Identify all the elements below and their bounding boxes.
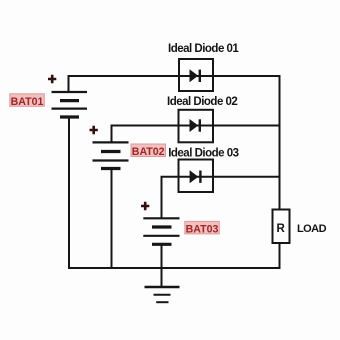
- wire ground stem: [161, 268, 163, 287]
- wire load bottom to bus: [279, 242, 281, 269]
- label BAT03: [185, 221, 220, 235]
- ideal diode U1 box: [179, 59, 213, 91]
- wire diode3 output to rail: [213, 176, 281, 178]
- wire bottom bus: [69, 267, 281, 269]
- wire diode1 output to right rail: [212, 75, 281, 77]
- battery BAT01: [52, 92, 88, 117]
- resistor R (LOAD): [273, 210, 290, 244]
- ideal diode U2 box: [179, 110, 214, 143]
- wire BAT02 top to diode2 input: [112, 126, 180, 144]
- wire BAT03 bottom to ground bus: [161, 244, 163, 268]
- svg-text:Ideal Diode 02: Ideal Diode 02: [167, 96, 237, 108]
- ground: [145, 287, 180, 302]
- plus sign BAT03: [141, 202, 149, 210]
- wire BAT01 bottom to ground bus: [68, 116, 70, 269]
- label BAT02: [131, 144, 166, 158]
- wire BAT03 top to diode3 input: [162, 177, 180, 219]
- svg-text:LOAD: LOAD: [297, 223, 327, 235]
- ideal diode U3 box: [179, 160, 214, 193]
- plus sign BAT02: [90, 126, 98, 134]
- label BAT01: [10, 94, 45, 108]
- plus sign BAT01: [48, 75, 56, 83]
- battery BAT02: [93, 142, 129, 168]
- battery BAT03: [143, 218, 179, 244]
- svg-text:BAT01: BAT01: [11, 96, 44, 108]
- wire BAT02 bottom to ground bus: [111, 168, 113, 269]
- svg-text:Ideal Diode 01: Ideal Diode 01: [168, 43, 239, 55]
- wire diode2 output to rail: [212, 125, 280, 127]
- svg-text:R: R: [277, 223, 286, 235]
- wire right rail: [279, 75, 281, 210]
- svg-text:Ideal Diode 03: Ideal Diode 03: [168, 148, 238, 160]
- wire BAT01 top to diode1 input: [69, 76, 181, 93]
- svg-text:BAT02: BAT02: [132, 146, 165, 158]
- svg-text:BAT03: BAT03: [186, 223, 219, 235]
